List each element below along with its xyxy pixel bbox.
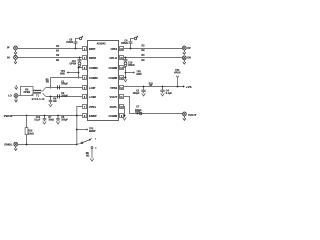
svg-text:OPHI: OPHI — [110, 47, 117, 51]
svg-text:ON: ON — [187, 57, 191, 60]
wire pin7 to switch — [76, 107, 83, 145]
terminal arrow above LO — [15, 85, 18, 89]
svg-text:R10: R10 — [28, 130, 33, 132]
connector J6 OPLO — [182, 56, 186, 60]
connector J5 OPHI — [182, 46, 186, 50]
svg-text:ETC1-1-13: ETC1-1-13 — [32, 99, 45, 101]
pin 12 — [110, 86, 123, 91]
ground below right COMM bus — [124, 79, 127, 82]
terminal for C8 — [79, 36, 83, 40]
svg-text:10kΩ: 10kΩ — [48, 119, 54, 121]
wire LO upper — [46, 87, 83, 89]
svg-text:OPEN: OPEN — [66, 42, 73, 44]
resistor R6 OPEN — [21, 87, 34, 96]
wire ENBL — [18, 144, 78, 146]
wire LO — [18, 95, 20, 97]
svg-text:VPOS: VPOS — [174, 73, 181, 75]
svg-text:0Ω: 0Ω — [46, 82, 49, 84]
pin 3 — [83, 66, 99, 71]
resistor R1 0ohm labels — [56, 46, 60, 53]
svg-text:INPM: INPM — [89, 56, 97, 60]
capacitor C10 — [124, 57, 135, 68]
svg-text:OPLO: OPLO — [109, 56, 118, 60]
ground below J7 — [183, 116, 186, 120]
connector J2 IN — [14, 55, 18, 59]
capacitor C7 — [135, 106, 142, 114]
capacitor C1 — [58, 81, 69, 89]
resistor R11 label — [149, 83, 154, 87]
pin 8 — [83, 114, 97, 119]
svg-text:ENBL: ENBL — [4, 142, 12, 146]
connector J7 VOUT — [182, 112, 186, 116]
terminal for C10 — [124, 62, 127, 67]
svg-text:100pF: 100pF — [133, 93, 140, 95]
svg-text:100pF: 100pF — [61, 95, 68, 97]
ground below J6 — [183, 60, 186, 64]
svg-text:GND: GND — [60, 74, 65, 76]
pin 10 — [110, 105, 124, 110]
capacitor C8 — [66, 39, 79, 50]
svg-text:R4: R4 — [142, 54, 146, 57]
svg-text:COMM: COMM — [89, 66, 98, 70]
svg-text:R2: R2 — [56, 55, 60, 57]
svg-text:T1: T1 — [36, 96, 39, 98]
svg-text:OPEN: OPEN — [69, 63, 76, 65]
svg-text:LO: LO — [8, 95, 12, 98]
capacitor C5 shunt — [56, 115, 68, 125]
svg-text:R3: R3 — [142, 46, 146, 48]
ground below J3 — [14, 98, 17, 102]
capacitor C12 shunt — [34, 115, 54, 125]
svg-text:OP: OP — [187, 47, 191, 50]
svg-text:0.1μF: 0.1μF — [166, 93, 173, 95]
node +VS — [183, 85, 192, 89]
svg-text:OPEN: OPEN — [23, 92, 30, 94]
resistor R3 0ohm labels — [141, 46, 145, 53]
wire row2 left — [18, 57, 83, 59]
pin 14 — [108, 66, 123, 71]
pin 9 — [108, 114, 123, 119]
svg-text:GND: GND — [136, 74, 141, 76]
svg-text:OPEN: OPEN — [128, 65, 135, 67]
pin 13 — [108, 76, 123, 81]
svg-text:VOUT: VOUT — [188, 113, 197, 117]
svg-text:COMM: COMM — [108, 114, 117, 118]
svg-text:VPS2: VPS2 — [110, 86, 118, 90]
svg-text:LOIM: LOIM — [89, 95, 97, 99]
wire VOUT — [124, 97, 183, 114]
pin 6 — [83, 95, 97, 100]
svg-text:IP: IP — [7, 47, 10, 50]
svg-text:INPP: INPP — [89, 47, 96, 51]
resistor R5 — [46, 78, 83, 89]
svg-text:0Ω: 0Ω — [56, 60, 59, 62]
pin 4 — [83, 76, 99, 81]
resistor R10 — [25, 115, 34, 145]
resistor R9 shunt — [49, 96, 57, 107]
resistor R4 0ohm labels — [141, 54, 145, 62]
wire row2 right — [124, 57, 183, 59]
svg-text:+VS: +VS — [186, 85, 192, 89]
svg-text:VPS1: VPS1 — [89, 105, 97, 109]
capacitor C11 — [69, 57, 81, 66]
switch S1 — [77, 138, 98, 149]
test point TP2 ENBP — [77, 128, 96, 133]
op-amp U1 — [88, 41, 119, 121]
svg-text:C7: C7 — [136, 106, 140, 108]
svg-text:0Ω: 0Ω — [141, 60, 144, 62]
connector J3 LO — [14, 94, 18, 98]
svg-text:LOIP: LOIP — [89, 86, 96, 90]
svg-text:0Ω: 0Ω — [141, 50, 144, 52]
terminal for C11 — [78, 62, 81, 67]
svg-text:IN: IN — [7, 56, 10, 59]
test point TP3 GND — [126, 72, 142, 77]
pin 15 — [109, 56, 123, 61]
pin 7 — [83, 105, 97, 110]
ground below R8 — [90, 158, 94, 161]
wire +VS rail — [124, 86, 184, 88]
ground below J1 — [14, 50, 17, 54]
svg-text:AD8343: AD8343 — [97, 43, 107, 46]
terminal on VOUT wire — [139, 112, 141, 114]
svg-text:PWUP: PWUP — [4, 114, 13, 118]
capacitor C3 — [133, 86, 146, 96]
wire row1 left — [18, 48, 83, 50]
capacitor C6 — [121, 39, 134, 50]
ground below J5 — [183, 50, 186, 54]
capacitor C4 — [160, 86, 172, 96]
svg-text:ENBP: ENBP — [89, 114, 97, 118]
pin 16 — [110, 47, 123, 52]
svg-text:100pF: 100pF — [61, 84, 68, 86]
svg-text:0Ω: 0Ω — [86, 156, 89, 158]
ground below J4 — [14, 146, 17, 150]
test point TP4 GND — [60, 70, 79, 76]
wire row1 right — [124, 48, 183, 50]
svg-text:R1: R1 — [56, 46, 60, 48]
svg-text:0.1μF: 0.1μF — [34, 119, 41, 121]
wire right COMM bus — [124, 68, 127, 80]
resistor R8 — [86, 149, 92, 159]
connector J1 IP — [14, 46, 18, 50]
svg-text:ENBP: ENBP — [89, 131, 96, 133]
svg-text:DCPL: DCPL — [110, 105, 118, 109]
wire left COMM bus — [78, 67, 83, 79]
pin 5 — [83, 86, 96, 91]
pin 1 — [83, 47, 96, 52]
wire LO lower — [46, 96, 83, 98]
wire pins 10 and 9 to ground — [124, 107, 126, 118]
svg-text:OPEN: OPEN — [121, 43, 128, 45]
pin 11 — [110, 95, 124, 100]
resistor R2 0ohm labels — [56, 55, 60, 62]
svg-text:0Ω: 0Ω — [56, 51, 59, 53]
svg-text:COMM: COMM — [89, 76, 98, 80]
svg-text:0Ω: 0Ω — [53, 101, 56, 103]
svg-text:1: 1 — [95, 139, 97, 141]
terminal for C6 — [134, 36, 138, 40]
connector J4 ENBL — [14, 142, 18, 146]
svg-text:10kΩ: 10kΩ — [28, 133, 34, 135]
svg-text:100pF: 100pF — [61, 119, 68, 121]
pin 2 — [83, 56, 97, 61]
capacitor C2 — [58, 93, 69, 98]
ground below pins 10 and 9 — [123, 117, 127, 120]
svg-text:VOUT: VOUT — [110, 95, 118, 99]
svg-text:2: 2 — [95, 148, 97, 150]
ground below J2 — [14, 60, 17, 64]
transformer T1 — [31, 88, 45, 102]
svg-text:COMM: COMM — [108, 76, 117, 80]
test point TP1 VPOS — [174, 70, 181, 87]
wire ENBP — [12, 115, 83, 117]
svg-text:COMM: COMM — [108, 66, 117, 70]
